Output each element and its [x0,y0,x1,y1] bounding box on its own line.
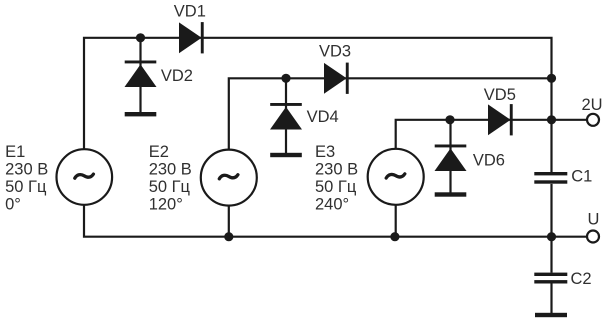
svg-text:0°: 0° [5,196,21,214]
svg-text:E1: E1 [5,143,25,161]
svg-text:U: U [588,210,600,228]
svg-text:VD6: VD6 [473,151,505,169]
svg-text:50 Гц: 50 Гц [149,178,191,196]
svg-text:120°: 120° [149,196,183,214]
svg-text:230 В: 230 В [149,161,192,179]
svg-text:VD3: VD3 [319,42,351,60]
svg-text:E2: E2 [149,143,169,161]
svg-text:VD1: VD1 [174,2,206,20]
svg-text:2U: 2U [582,96,603,114]
svg-text:50 Гц: 50 Гц [315,178,357,196]
svg-text:C1: C1 [571,168,592,186]
svg-text:VD5: VD5 [484,86,516,104]
svg-text:C2: C2 [571,270,592,288]
svg-text:VD2: VD2 [161,67,193,85]
svg-text:VD4: VD4 [307,108,339,126]
svg-text:230 В: 230 В [315,161,358,179]
svg-text:50 Гц: 50 Гц [5,178,47,196]
svg-text:E3: E3 [315,143,335,161]
svg-text:240°: 240° [315,196,349,214]
svg-text:230 В: 230 В [5,161,48,179]
